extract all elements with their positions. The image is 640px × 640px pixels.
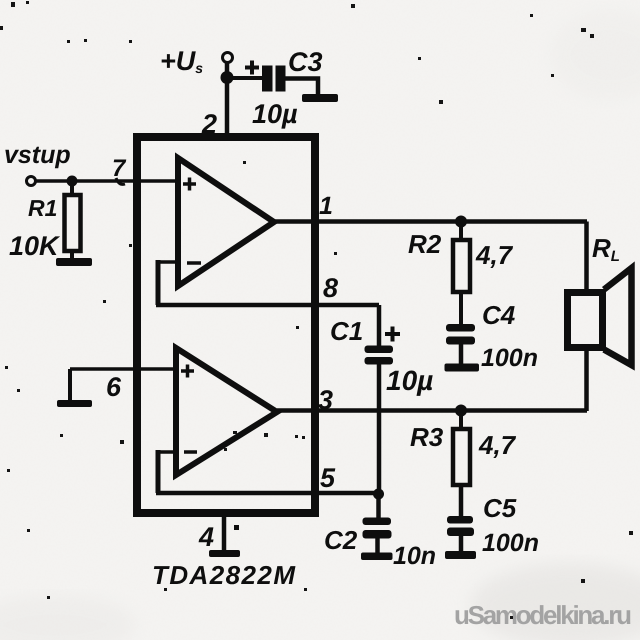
svg-text:2: 2 — [201, 109, 217, 139]
terminal +Us — [223, 53, 233, 63]
op-amp U1B minus input mark — [184, 450, 197, 454]
wire +Us terminal down to pin 2 — [225, 62, 230, 137]
junction node pin3/R3 — [455, 405, 467, 417]
wire pin 4 ground drop — [222, 513, 227, 551]
wire speaker top lead — [584, 222, 589, 293]
svg-text:4,7: 4,7 — [475, 240, 514, 270]
wire pin 5 horizontal (feedback bottom rail to C2 junction) — [156, 491, 379, 496]
svg-text:100n: 100n — [481, 344, 538, 372]
svg-text:C3: C3 — [288, 47, 323, 77]
wire junction to C2 top plate — [376, 494, 381, 518]
resistor R3 body — [453, 429, 470, 485]
svg-text:1: 1 — [319, 192, 333, 220]
svg-text:3: 3 — [318, 385, 333, 415]
capacitor C3 plates — [262, 66, 273, 92]
svg-text:5: 5 — [320, 463, 336, 493]
wire pin 1 output to speaker — [274, 219, 587, 224]
paper smudge top right — [550, 10, 640, 100]
wire pin 6 ground drop — [68, 369, 72, 401]
svg-text:uSamodelkina.ru: uSamodelkina.ru — [454, 600, 632, 630]
svg-text:6: 6 — [106, 372, 122, 402]
wire C2 bottom plate to ground — [375, 538, 380, 553]
wire R1 top lead — [70, 181, 74, 195]
op-amp U1A triangle — [178, 158, 274, 286]
svg-text:R1: R1 — [28, 195, 57, 221]
ground at pin 6 — [57, 400, 92, 407]
ground at C2 — [361, 553, 393, 561]
pin7 tick mark — [116, 178, 125, 184]
wire R3 bottom lead to C5 — [459, 485, 464, 516]
wire R2 top lead from pin 1 net — [459, 222, 463, 241]
wire U1B feedback: minus input to left rail — [158, 450, 176, 454]
op-amp U1B triangle — [176, 348, 277, 475]
wire U1A feedback left vertical — [156, 260, 161, 305]
svg-text:R3: R3 — [410, 422, 444, 452]
capacitor C3 polarity plus — [245, 61, 259, 75]
svg-text:vstup: vstup — [4, 141, 71, 169]
wire C5 bottom plate to ground — [459, 536, 464, 552]
capacitor C2 plates — [363, 518, 392, 526]
ground at R1 — [56, 258, 92, 266]
svg-text:100n: 100n — [482, 529, 539, 557]
svg-text:10µ: 10µ — [386, 365, 433, 396]
terminal vstup — [27, 177, 36, 186]
wire vstup terminal to pin 7 / op-amp U1A plus input — [35, 179, 178, 183]
svg-text:7: 7 — [112, 155, 127, 182]
svg-text:8: 8 — [323, 273, 338, 303]
wire R2 bottom lead to C4 — [459, 292, 463, 324]
capacitor C4 plates — [446, 324, 475, 332]
paper smudge bottom left — [0, 595, 135, 640]
op-amp U1B plus input mark — [181, 365, 194, 378]
speaker RL frame — [568, 293, 603, 348]
wire C4 bottom plate to ground — [459, 344, 464, 364]
svg-text:4: 4 — [198, 522, 214, 552]
svg-text:C4: C4 — [482, 300, 516, 330]
op-amp U1A minus input mark — [187, 261, 201, 265]
svg-text:4,7: 4,7 — [478, 430, 517, 460]
wire R3 top lead from pin 3 net — [459, 411, 463, 430]
wire U1B feedback left vertical — [156, 450, 161, 493]
junction node at +Us — [221, 71, 234, 84]
svg-text:C1: C1 — [330, 316, 363, 346]
junction node pin5/C2 — [373, 489, 384, 500]
svg-text:10µ: 10µ — [252, 99, 298, 129]
op-amp U1A plus input mark — [183, 178, 196, 191]
wire pin 6 input — [70, 367, 176, 371]
capacitor C1 plates — [365, 346, 394, 354]
wire pin 8 horizontal (feedback bottom rail to C1) — [156, 303, 379, 308]
svg-text:10n: 10n — [393, 542, 436, 570]
ground at C4 — [445, 364, 480, 372]
resistor R1 body — [65, 195, 81, 251]
ground at C5 — [445, 551, 476, 559]
svg-text:R2: R2 — [408, 229, 442, 259]
wire speaker bottom lead — [584, 347, 589, 411]
stray dot right of pin 4 — [234, 525, 239, 530]
ground at pin 4 — [209, 550, 240, 557]
wire C3 right plate to ground corner — [285, 79, 318, 96]
svg-text:C5: C5 — [483, 493, 517, 523]
wire +Us junction to C3 left plate — [227, 76, 263, 80]
svg-text:TDA2822M: TDA2822M — [152, 560, 296, 590]
wire U1A feedback: minus input to left rail — [158, 260, 178, 264]
wire R1 bottom lead to ground — [70, 251, 74, 261]
paper smudge bottom right — [470, 563, 640, 640]
resistor R2 body — [453, 240, 470, 292]
capacitor C1 polarity plus — [385, 327, 400, 342]
capacitor C5 plates — [447, 516, 473, 524]
ground at C3 — [302, 94, 338, 102]
speaker RL cone — [604, 268, 632, 365]
svg-text:C2: C2 — [324, 525, 358, 555]
svg-text:10K: 10K — [9, 231, 61, 261]
junction node pin1/R2 — [455, 216, 467, 228]
junction node at vstup/R1 — [67, 176, 78, 187]
IC U1 TDA2822M body — [137, 137, 315, 513]
wire C1 bottom lead down to pin 5 junction — [377, 364, 382, 494]
wire C1 top lead from pin 8 — [377, 305, 382, 346]
wire pin 3 output to speaker bottom — [277, 408, 587, 413]
